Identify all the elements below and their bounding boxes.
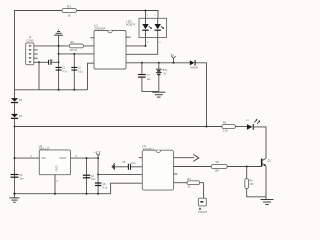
ground right bbox=[261, 197, 274, 205]
wire R4 to gnd rail bbox=[247, 189, 266, 197]
node junction U3 gnd bbox=[54, 193, 56, 195]
svg-text:4.7u: 4.7u bbox=[62, 70, 67, 73]
wire L1 to Q1 collector bbox=[254, 127, 266, 158]
node junction base bbox=[246, 166, 248, 168]
capacitor C2 bbox=[71, 54, 83, 90]
LED L1 bbox=[246, 119, 260, 130]
wire mid horizontal net bbox=[15, 126, 222, 128]
svg-text:VOUT: VOUT bbox=[59, 156, 67, 160]
svg-text:1K: 1K bbox=[187, 186, 190, 189]
node junction mid-left bbox=[14, 126, 16, 128]
transistor Q1 bbox=[261, 158, 272, 166]
svg-text:R2: R2 bbox=[70, 40, 74, 44]
resistor R6 bbox=[222, 122, 236, 133]
svg-text:3V: 3V bbox=[163, 73, 166, 76]
wire between diodes bbox=[14, 103, 16, 114]
wire Q1 emitter down bbox=[265, 166, 267, 197]
node junction C8 bottom bbox=[97, 193, 99, 195]
wire U2 to R5 bbox=[174, 166, 212, 168]
node junction stem-C3 bbox=[58, 61, 60, 63]
wire to U2 pin3 bbox=[98, 173, 142, 175]
diode D2 bbox=[11, 114, 23, 119]
wire U3 VIN bbox=[15, 157, 40, 159]
wire U1 pin7 to LED1 bbox=[126, 38, 146, 46]
resistor R4 bbox=[245, 179, 254, 189]
svg-text:+4.7V: +4.7V bbox=[94, 151, 101, 154]
wire U2 right stub pin bbox=[174, 173, 178, 175]
capacitor C6 bbox=[11, 174, 25, 181]
wire C3 to antenna stem bbox=[51, 61, 59, 63]
wire R5 to Q1 base bbox=[227, 166, 261, 168]
resistor R1 bbox=[62, 5, 77, 18]
svg-text:Q1: Q1 bbox=[268, 159, 272, 162]
svg-text:1M 1%: 1M 1% bbox=[69, 49, 77, 52]
wire D3 to mid node bbox=[196, 63, 207, 127]
resistor R2 bbox=[69, 40, 83, 52]
capacitor C1 bbox=[56, 66, 68, 73]
wire left vertical lower bbox=[14, 119, 16, 194]
ground under battery bbox=[152, 92, 165, 97]
node junction mid-diode bbox=[206, 126, 208, 128]
svg-text:CON5: CON5 bbox=[26, 38, 34, 42]
wire top rail bbox=[15, 11, 159, 99]
svg-text:10u: 10u bbox=[20, 178, 25, 181]
node junction VIN-left bbox=[14, 157, 16, 159]
node junction C2 top bbox=[73, 53, 75, 55]
node junction C1 bottom bbox=[58, 89, 60, 91]
node junction C4 bottom bbox=[86, 193, 88, 195]
wire U1 pin8 stub bbox=[126, 36, 131, 38]
node junction pin5 bbox=[38, 61, 40, 63]
wire 4.7V vertical bbox=[97, 158, 99, 194]
wire J1 pin4 stub bbox=[34, 57, 38, 59]
capacitor C5 bbox=[122, 162, 142, 170]
wire LED1 pin1 drop bbox=[145, 11, 147, 19]
diode D1 bbox=[11, 98, 23, 103]
wire U3 GND pin bbox=[54, 175, 56, 194]
node junction U2 pin3 wire bbox=[97, 173, 99, 175]
node junction B+ bbox=[173, 62, 175, 64]
wire U1 pin1 stub bbox=[90, 37, 94, 39]
wire U1 pin5 B+ rail bbox=[126, 62, 190, 64]
wire R4 drop bbox=[246, 167, 248, 179]
svg-text:AC90T4: AC90T4 bbox=[126, 23, 136, 26]
wire U2 pin to R3 bbox=[174, 182, 187, 184]
wire antenna stem vertical bbox=[58, 35, 60, 90]
capacitor C3 bbox=[49, 59, 54, 65]
capacitor C8 bbox=[95, 182, 108, 189]
battery BT1 bbox=[156, 63, 168, 92]
svg-text:0.1u: 0.1u bbox=[131, 163, 136, 165]
svg-text:2.2K: 2.2K bbox=[223, 129, 228, 132]
node junction C4 top bbox=[86, 157, 88, 159]
node junction C2 bottom bbox=[73, 89, 75, 91]
node junction top rail bbox=[145, 10, 147, 12]
wire J1 pin1 to R2 to U1 bbox=[34, 45, 94, 47]
svg-text:10u: 10u bbox=[91, 178, 96, 181]
svg-text:47K: 47K bbox=[249, 183, 254, 186]
wire U1 pin6 to LED1 bbox=[126, 38, 158, 55]
diode D3 bbox=[190, 60, 199, 70]
wire bottom rail left bbox=[15, 89, 88, 91]
svg-text:10u: 10u bbox=[147, 78, 152, 81]
svg-text:SO5050A: SO5050A bbox=[94, 28, 105, 31]
wire U2 pin1 stub bbox=[139, 157, 143, 159]
wire R6 to L1 bbox=[236, 126, 247, 128]
wire U1 pin4 corner bbox=[88, 63, 95, 90]
node B+ flag bbox=[171, 53, 176, 63]
node junction stem-pin1wire bbox=[58, 45, 60, 47]
svg-text:0.1u: 0.1u bbox=[103, 186, 108, 189]
wire R3 to touch bbox=[200, 183, 204, 199]
svg-text:0.1u: 0.1u bbox=[78, 70, 83, 73]
wire U3 VOUT bbox=[71, 157, 99, 159]
svg-text:10K: 10K bbox=[215, 170, 220, 173]
node junction 4.7V bbox=[97, 157, 99, 159]
capacitor C4 bbox=[83, 158, 96, 194]
svg-text:4069-1.2T: 4069-1.2T bbox=[39, 148, 50, 151]
wire pin5 drop to bottom rail bbox=[38, 62, 40, 90]
ground bottom-left bbox=[10, 194, 20, 203]
node junction battery top bbox=[158, 62, 160, 64]
connector J1 bbox=[26, 35, 34, 64]
resistor R5 bbox=[211, 161, 227, 173]
op-amp U1 bbox=[94, 24, 126, 69]
resistor R3 bbox=[187, 178, 200, 188]
node +4.7V flag bbox=[94, 151, 101, 158]
voltage regulator U3 bbox=[39, 144, 71, 175]
svg-text:B+: B+ bbox=[171, 53, 175, 57]
svg-text:GND: GND bbox=[55, 166, 59, 172]
IC U2 bbox=[142, 144, 173, 190]
microphone arrow into C5 bbox=[112, 163, 128, 169]
svg-text:1K: 1K bbox=[67, 14, 70, 18]
wire J1 pin3 stub bbox=[34, 53, 38, 55]
wire J1 pin2 stub bbox=[34, 49, 38, 51]
svg-text:SO5105-1: SO5105-1 bbox=[142, 148, 154, 151]
wire ground rail bottom bbox=[15, 183, 143, 194]
svg-text:TOUCH: TOUCH bbox=[198, 211, 207, 214]
svg-text:R1: R1 bbox=[67, 5, 71, 9]
LED LED1 package bbox=[126, 18, 167, 37]
wire U1 pin3 from stem bbox=[59, 53, 94, 55]
svg-text:VIN: VIN bbox=[41, 156, 45, 160]
svg-text:1N4148: 1N4148 bbox=[190, 68, 199, 70]
wire U2 pin out arrow bbox=[174, 154, 199, 161]
capacitor C7 bbox=[138, 63, 159, 92]
wire J1 pin5 bbox=[34, 61, 49, 63]
node junction gnd-left bbox=[13, 193, 15, 195]
node junction B+ rail C7 bbox=[141, 62, 143, 64]
node junction stem-pin3wire bbox=[58, 53, 60, 55]
ground antenna symbol (inverted) bbox=[54, 30, 63, 35]
node junction pin7 bbox=[145, 45, 147, 47]
touch pad B1 bbox=[198, 198, 207, 214]
